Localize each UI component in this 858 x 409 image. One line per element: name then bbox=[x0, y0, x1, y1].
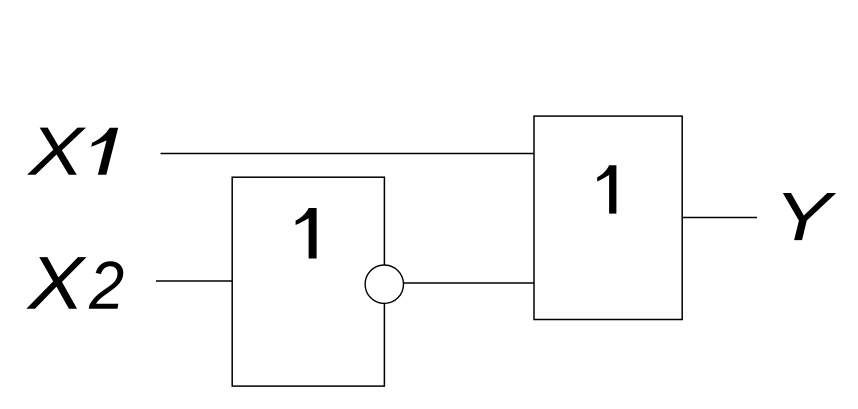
value label 1 of gate U2 bbox=[597, 165, 616, 213]
node X1 bbox=[27, 128, 118, 175]
wire X1 input to gate U2 pin bbox=[161, 153, 535, 155]
wire X2 input to gate U1 pin bbox=[156, 280, 233, 282]
inversion bubble on U1 output bbox=[365, 265, 403, 303]
value label 1 of gate U1 bbox=[296, 208, 317, 258]
wire U1 bubble to gate U2 pin bbox=[404, 282, 535, 284]
node X2 bbox=[26, 257, 123, 309]
inverter gate U1 (IEC box) bbox=[232, 177, 384, 386]
node Y bbox=[783, 193, 836, 240]
wire U2 output to node Y bbox=[682, 217, 757, 219]
gate U2 (IEC box) bbox=[534, 116, 682, 319]
